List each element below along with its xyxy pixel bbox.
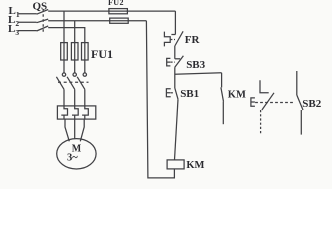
wire coil bottom return: [146, 21, 174, 178]
SB2 mechanical link (dashed): [255, 102, 294, 104]
wire L3 bus with corner down: [48, 28, 85, 43]
SB1 actuator link (dashed): [171, 92, 175, 94]
svg-text:SB1: SB1: [180, 88, 199, 100]
svg-text:QS: QS: [33, 1, 48, 13]
pushbutton SB2 NC upper terminal with tick: [260, 80, 269, 93]
wire L2 bus to return corner: [48, 20, 146, 22]
disconnect switch QS blade 3: [37, 26, 49, 31]
svg-text:FU1: FU1: [91, 47, 113, 61]
FR heater element 1: [61, 106, 67, 119]
disconnect switch QS blade 2: [37, 19, 49, 23]
contactor KM main contact pole 2 terminal: [73, 73, 76, 76]
fuse FU1 a: [61, 43, 68, 60]
wire L3 lead: [18, 30, 37, 32]
coil KM: [167, 160, 184, 169]
thermal relay FR heater box: [57, 106, 95, 119]
FR heater element 3: [82, 106, 88, 119]
svg-text:SB2: SB2: [302, 98, 321, 110]
thermal relay FR actuator: [164, 32, 170, 47]
pushbutton SB3 actuator E: [167, 58, 171, 66]
SB3 actuator link (dashed): [171, 61, 175, 63]
wire heater to motor left: [65, 119, 69, 141]
contactor KM gang link (dashed): [58, 81, 89, 83]
SB2 NC lower wire (faded dashed): [260, 110, 262, 135]
contactor KM main contact pole 1 terminal: [62, 73, 65, 76]
svg-text:FU2: FU2: [108, 0, 124, 7]
fuse FU2 a: [109, 9, 128, 14]
pushbutton SB3 tick: [175, 58, 180, 60]
svg-text:KM: KM: [186, 160, 204, 171]
FR actuator link (dashed): [170, 39, 175, 41]
wire phase C fuse segment: [84, 43, 86, 73]
pushbutton SB1 blade: [175, 88, 178, 99]
wire FR to SB3: [174, 46, 176, 59]
FR heater element 2: [72, 106, 78, 119]
wire junction branch to KM aux: [175, 73, 222, 74]
thermal relay FR contact tick: [171, 34, 175, 36]
wire pole1 to heater box: [63, 89, 65, 106]
pushbutton SB2 actuator E: [251, 98, 255, 106]
contactor KM main contact pole 3 terminal: [83, 73, 86, 76]
wire heater to motor right: [80, 119, 84, 141]
switch QS gang link (dashed): [42, 9, 44, 33]
fuse FU1 c: [82, 43, 89, 60]
svg-text:3~: 3~: [67, 153, 78, 164]
svg-text:SB3: SB3: [186, 59, 205, 71]
wire SB3 to junction: [174, 67, 176, 88]
motor M circle: [57, 139, 96, 169]
pushbutton SB2 NC blade: [262, 93, 274, 110]
svg-text:KM: KM: [228, 89, 246, 100]
wire phase A drop through fuse: [63, 11, 65, 73]
pushbutton SB2 NO upper wire: [296, 71, 298, 95]
contactor KM main blade 1: [56, 77, 64, 90]
fuse FU2 b: [110, 18, 129, 23]
wire pole2 to heater box: [74, 89, 76, 106]
wire pole3 to heater box: [84, 89, 86, 106]
wire control feed from FU2a: [174, 11, 176, 34]
wire heater to motor middle: [74, 119, 76, 139]
pushbutton SB2 NO blade: [297, 95, 303, 110]
wire L1 bus to control corner: [48, 10, 175, 12]
wire KM aux lower: [222, 102, 224, 125]
disconnect switch QS blade 1: [37, 10, 49, 15]
contactor KM main blade 3: [77, 77, 85, 90]
svg-text:FR: FR: [185, 34, 201, 46]
wire SB1 to coil: [175, 99, 179, 160]
pushbutton SB1 actuator E: [166, 89, 170, 97]
pushbutton SB3 blade: [175, 56, 184, 67]
contactor KM aux blade: [221, 87, 224, 101]
wire phase B drop through fuse: [74, 21, 76, 73]
fuse FU1 b: [71, 43, 78, 60]
wire L1 lead: [19, 13, 37, 15]
contactor KM main blade 2: [67, 77, 75, 90]
thermal relay FR contact blade: [175, 31, 183, 46]
wire SB2 NO lower: [300, 110, 302, 135]
contactor KM aux contact stub: [221, 73, 223, 88]
wire L2 lead: [18, 21, 37, 23]
